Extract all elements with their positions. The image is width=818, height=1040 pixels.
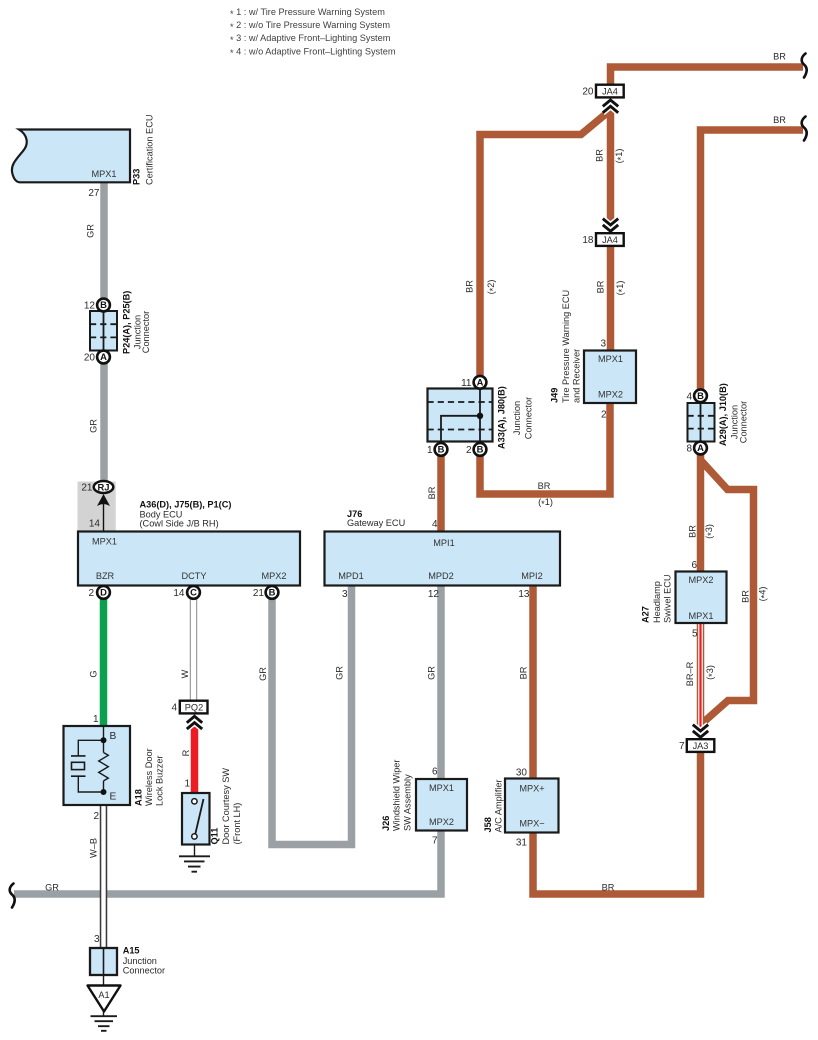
svg-text:BR: BR [596,280,606,293]
svg-text:JA4: JA4 [602,87,618,97]
svg-text:6: 6 [432,767,438,778]
svg-text:GR: GR [427,666,437,680]
svg-text:A15: A15 [123,946,140,956]
svg-text:Headlamp: Headlamp [652,581,662,623]
svg-text:MPX−: MPX− [519,818,544,828]
svg-text:* 1 : w/ Tire Pressure Warning: * 1 : w/ Tire Pressure Warning System [230,7,385,19]
svg-text:MPX+: MPX+ [519,784,544,794]
svg-text:12: 12 [428,589,440,600]
svg-text:* 3 : w/ Adaptive Front–Lighti: * 3 : w/ Adaptive Front–Lighting System [230,33,391,45]
A33 pin 1 circle B [435,443,448,456]
svg-text:A33(A), J80(B): A33(A), J80(B) [497,386,507,449]
wire GR MPD2 pin12 to J26 pin6 [437,586,445,780]
svg-text:12: 12 [84,301,96,312]
wire BR 2nd top horizontal to A29 pinB [701,130,804,390]
svg-text:1: 1 [93,714,99,725]
svg-text:A: A [697,442,704,453]
svg-text:A18: A18 [134,789,144,806]
svg-text:Tire Pressure Warning ECU: Tire Pressure Warning ECU [561,290,571,403]
A29 pin 8 circle A [694,442,707,455]
ground at Q11 [194,845,196,857]
junction connector A33(A),J80(B) box [428,389,493,442]
P24 pin 20 circle A [97,351,110,364]
svg-text:C: C [190,587,197,598]
svg-text:B: B [269,587,276,598]
ECU Body ECU box [78,532,300,586]
Body pin 2 circle D [97,586,110,599]
chevron arrow down at JA4-18 [603,219,618,232]
wire BR Gateway pin4 to A33 pin1 [437,456,445,532]
svg-text:2: 2 [88,588,94,599]
svg-text:7: 7 [432,835,438,846]
svg-text:Connector: Connector [524,397,534,439]
svg-text:BR: BR [538,481,551,491]
svg-text:21: 21 [81,483,93,494]
svg-text:GR: GR [45,883,59,893]
chevron arrow up at JA4-20 [603,100,618,113]
svg-text:BZR: BZR [96,571,115,581]
svg-text:2: 2 [93,811,99,822]
junction connector P24(A),P25(B) box [90,311,117,351]
svg-text:8: 8 [686,444,692,455]
svg-text:MPD1: MPD1 [338,571,364,581]
svg-text:Door Courtesy SW: Door Courtesy SW [221,768,231,845]
wire G BZR pin2 to A18 pin1 [100,598,108,727]
JA4-18 label box [596,233,624,246]
svg-text:BR–R: BR–R [685,661,695,686]
svg-text:A36(D), J75(B), P1(C): A36(D), J75(B), P1(C) [140,500,232,510]
break squiggle top BR 2 [802,117,807,141]
wire BR (*2) A33 pin11 up to JA4 junction [480,110,611,382]
svg-text:JA4: JA4 [602,235,618,245]
svg-text:(*1): (*1) [614,149,626,164]
P24 pin 12 circle B [97,299,110,312]
svg-text:BR: BR [688,525,698,538]
break squiggle top BR 1 [802,54,807,78]
svg-text:J26: J26 [381,816,391,831]
svg-text:3: 3 [94,934,100,945]
svg-text:P33: P33 [132,169,142,185]
svg-text:B: B [100,299,107,310]
A29 pin 4 circle B [694,389,707,402]
svg-text:BR: BR [427,486,437,499]
svg-text:J49: J49 [550,388,560,403]
svg-text:(*2): (*2) [486,280,498,295]
wire GR U-route Body MPX2 pin21 to Gateway MPD1 pin3 [272,586,352,845]
svg-text:(*3): (*3) [705,665,717,680]
ground A1 triangle [103,975,105,1016]
A18 internal resistor and piezo [99,726,109,792]
svg-text:GR: GR [89,419,99,433]
chevron arrow down at JA3 [693,725,708,738]
svg-text:3: 3 [342,589,348,600]
svg-text:Q11: Q11 [210,828,220,845]
svg-text:18: 18 [582,235,594,246]
svg-text:Windshield Wiper: Windshield Wiper [392,760,402,831]
svg-text:A27: A27 [641,606,651,623]
wire BR JA4-18 to J49 pin3 [607,247,615,352]
svg-text:Junction: Junction [512,401,522,435]
svg-text:7: 7 [679,741,685,752]
junction connector A29(A),J10(B) box [688,403,715,442]
svg-text:MPX2: MPX2 [598,389,623,399]
chevron arrow up at PQ2 [187,716,202,729]
wire BR A33 pin2 to J49 pin2 [480,404,610,495]
svg-text:B: B [438,444,445,455]
legend notes [230,7,396,58]
wire W-B A18 pin2 to A15 pin3 [100,805,108,950]
svg-text:A/C Amplifier: A/C Amplifier [494,779,504,832]
svg-text:21: 21 [253,588,265,599]
svg-text:6: 6 [691,560,697,571]
switch Q11 box [182,793,210,845]
svg-text:31: 31 [516,838,528,849]
svg-text:G: G [89,670,99,677]
svg-text:B: B [110,731,117,742]
svg-text:B: B [477,444,484,455]
svg-text:P24(A), P25(B): P24(A), P25(B) [121,291,131,354]
svg-text:4: 4 [686,391,692,402]
wire BR-R A27 pin5 to JA3 [697,623,705,739]
svg-text:Certification ECU: Certification ECU [145,115,155,185]
svg-text:GR: GR [86,224,96,238]
J/B internal shading at Body ECU [78,482,116,532]
svg-text:1: 1 [427,445,433,456]
A33 pin 2 circle B [474,443,487,456]
svg-text:1: 1 [184,779,190,790]
svg-text:2: 2 [466,445,472,456]
svg-text:A1: A1 [98,990,109,1000]
wire BR branch (*4) A29 to JA3 [701,460,754,724]
svg-text:JA3: JA3 [693,741,709,751]
svg-text:5: 5 [692,628,698,639]
svg-text:MPX1: MPX1 [429,783,454,793]
svg-text:30: 30 [516,767,528,778]
ECU A27 Headlamp Swivel ECU box [676,572,727,624]
svg-text:13: 13 [518,589,530,600]
wire BR JA4-20 to JA4-18 [607,105,615,222]
svg-text:MPI1: MPI1 [433,538,454,548]
svg-text:GR: GR [258,667,268,681]
svg-text:Gateway ECU: Gateway ECU [347,518,405,528]
svg-text:Swivel ECU: Swivel ECU [663,575,673,624]
svg-text:* 4 : w/o Adaptive Front–Light: * 4 : w/o Adaptive Front–Lighting System [230,46,396,58]
svg-text:SW Assembly: SW Assembly [403,774,413,831]
svg-text:RJ: RJ [98,481,110,492]
svg-text:B: B [697,390,704,401]
svg-text:BR: BR [773,115,786,125]
buzzer A18 box [64,726,131,805]
svg-text:(*1): (*1) [538,497,553,509]
wire GR P33 pin27 to P24 [100,181,108,300]
svg-text:A: A [100,351,107,362]
svg-text:W: W [180,669,190,678]
svg-text:BR: BR [595,149,605,162]
svg-text:Connector: Connector [123,965,165,975]
svg-text:BR: BR [773,52,786,62]
svg-text:E: E [110,791,117,802]
svg-text:PQ2: PQ2 [185,703,203,713]
junction connector A15 box [90,948,117,975]
svg-text:14: 14 [173,588,185,599]
ECU J26 Windshield Wiper SW box [416,779,467,831]
ECU J49 box [584,351,636,404]
svg-text:J58: J58 [483,817,493,832]
wire BR J58 pin31 right and up to JA3 [533,752,701,894]
svg-text:DCTY: DCTY [181,571,206,581]
Body pin 14 circle C [187,586,200,599]
svg-text:BR: BR [465,280,475,293]
svg-text:11: 11 [461,378,472,389]
wire GR horizontal J26 pin7 to left break [14,831,441,895]
wire BR A29 pinA to A27 pin6 [697,454,705,572]
PQ2 label box [180,701,208,714]
ECU J76 Gateway ECU box [325,532,561,586]
svg-text:* 2 : w/o Tire Pressure Warnin: * 2 : w/o Tire Pressure Warning System [230,20,390,32]
svg-text:MPX1: MPX1 [92,537,117,547]
wire W DCTY pin14 to PQ2 [190,598,198,701]
svg-text:(*3): (*3) [704,524,716,539]
svg-text:4: 4 [171,703,177,714]
svg-text:A29(A), J10(B): A29(A), J10(B) [718,383,728,446]
wire BR MPI2 pin13 to J58 pin30 [529,586,537,780]
wire GR P24 pinA to RJ [100,363,108,483]
JA3 label box [687,739,715,752]
svg-text:Lock Buzzer: Lock Buzzer [155,755,165,806]
A33 pin 11 circle A [474,376,487,389]
svg-text:MPI2: MPI2 [521,571,542,581]
svg-text:GR: GR [335,666,345,680]
svg-text:MPD2: MPD2 [428,571,454,581]
svg-text:R: R [181,749,191,756]
break squiggle left GR [10,884,15,908]
svg-text:27: 27 [88,188,100,199]
svg-text:20: 20 [84,353,96,364]
svg-text:BR: BR [741,590,751,603]
svg-text:4: 4 [432,519,438,530]
Body pin 21 circle B [266,586,279,599]
svg-text:Wireless Door: Wireless Door [144,748,154,806]
svg-text:14: 14 [89,519,101,530]
svg-text:MPX1: MPX1 [688,611,713,621]
ECU J58 A/C Amplifier box [505,779,559,833]
svg-text:MPX2: MPX2 [429,817,454,827]
svg-text:(*1): (*1) [615,281,627,296]
svg-text:MPX1: MPX1 [91,169,116,179]
svg-text:(Front LH): (Front LH) [232,803,242,845]
wire BR top horizontal to JA4-20 [611,67,804,85]
svg-text:W–B: W–B [89,838,99,858]
svg-text:MPX2: MPX2 [261,571,286,581]
svg-text:Connector: Connector [739,401,749,443]
JA4-20 label box [596,85,624,98]
svg-text:MPX1: MPX1 [598,354,623,364]
wire R PQ2 to Q11 pin1 [191,727,199,795]
svg-text:BR: BR [602,883,615,893]
svg-text:3: 3 [600,339,606,350]
arrow up into RJ [103,502,105,532]
svg-text:MPX2: MPX2 [688,575,713,585]
svg-text:Connector: Connector [141,311,151,353]
svg-text:and Receiver: and Receiver [572,349,582,403]
svg-text:2: 2 [601,409,607,420]
svg-text:A: A [477,377,484,388]
svg-text:(Cowl Side J/B RH): (Cowl Side J/B RH) [140,519,219,529]
svg-text:BR: BR [519,666,529,679]
svg-text:D: D [100,587,107,598]
ECU P33 Certification ECU box [12,130,130,183]
svg-text:(*4): (*4) [758,587,770,602]
ground symbol A1 [91,1016,118,1031]
svg-text:20: 20 [582,87,594,98]
